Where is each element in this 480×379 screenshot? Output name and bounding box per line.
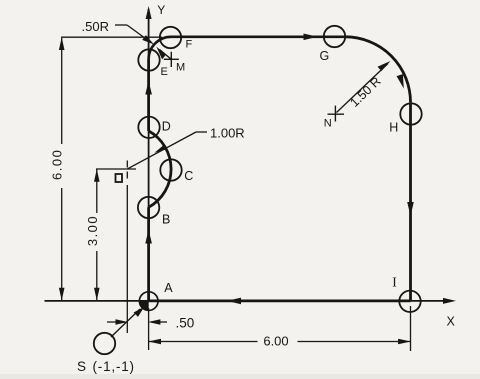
direction arrow (up) on upper vertical — [145, 81, 152, 95]
svg-text:.50: .50 — [176, 316, 195, 331]
svg-text:X: X — [447, 315, 456, 329]
svg-text:(-1,-1): (-1,-1) — [93, 359, 135, 374]
svg-text:M: M — [176, 62, 185, 74]
direction arrow on corner arc — [397, 74, 407, 89]
tool path: lower vertical A to B — [147, 207, 150, 301]
circle B — [138, 197, 159, 218]
svg-text:A: A — [164, 281, 173, 295]
tool path: .50R fillet arc E to F — [149, 37, 172, 60]
circle D — [138, 117, 159, 138]
svg-text:B: B — [162, 212, 170, 226]
circle S — [94, 333, 115, 354]
arrowhead at A on S leader — [134, 307, 145, 317]
svg-text:1.00R: 1.00R — [210, 126, 245, 141]
Y axis — [146, 6, 152, 300]
square marker near arc centre — [116, 174, 123, 182]
tool path: bottom segment I to A — [149, 299, 411, 302]
corner arc centre mark N — [328, 106, 345, 122]
label .50R with leader — [82, 19, 155, 45]
svg-text:F: F — [186, 39, 193, 51]
circle A with filled quadrant — [139, 292, 158, 311]
svg-text:H: H — [389, 120, 398, 134]
leader line S to A — [111, 309, 140, 337]
dimension 6.00 vertical (left) — [50, 37, 65, 300]
dimension 6.00 horizontal (bottom) — [148, 334, 411, 349]
circle H — [400, 103, 421, 124]
direction arrow (up) on lower vertical — [145, 230, 152, 244]
svg-text:D: D — [162, 119, 171, 133]
circle C — [160, 159, 181, 180]
label 1.00R with leader — [128, 126, 245, 169]
fillet centre mark M with radius arrow — [156, 47, 179, 68]
dimension 3.00 vertical — [85, 169, 100, 300]
svg-text:6.00: 6.00 — [263, 334, 288, 349]
svg-text:6.00: 6.00 — [50, 149, 65, 180]
direction arrow (right) on top segment — [304, 34, 318, 41]
extension line at arc-center height (y=169) — [96, 168, 136, 170]
circle I — [399, 291, 420, 312]
circle G — [324, 26, 345, 47]
dimension .50 horizontal — [107, 316, 194, 331]
svg-text:N: N — [324, 118, 332, 130]
extension line below A (x=148.6) — [148, 308, 150, 350]
svg-text:S: S — [77, 359, 86, 374]
tool path: 1.00R s-curve arc B to D — [149, 131, 171, 207]
tool path: top segment to G — [171, 35, 345, 38]
direction arrow (left) on bottom segment — [227, 298, 241, 305]
tool path: 1.50R corner arc G to H — [345, 37, 411, 103]
extension line top (y=37) — [61, 36, 162, 38]
svg-text:Y: Y — [157, 3, 165, 17]
circle F — [160, 27, 181, 48]
svg-text:3.00: 3.00 — [85, 215, 100, 246]
centerline through 1.00R arc center (x=127.3) — [126, 161, 128, 334]
svg-text:.50R: .50R — [82, 19, 109, 34]
extension line below I (x=410.5) — [410, 306, 412, 351]
circle E — [138, 49, 159, 70]
direction arrow (down) on right vertical — [407, 202, 414, 216]
svg-text:I: I — [392, 275, 397, 290]
svg-text:C: C — [184, 169, 193, 183]
tool path: upper vertical D to E — [147, 59, 150, 131]
tool path: right vertical H to I — [409, 102, 412, 301]
X axis — [45, 298, 457, 304]
radius leader N to arc — [337, 61, 391, 113]
svg-text:E: E — [161, 66, 168, 78]
svg-text:G: G — [320, 49, 330, 63]
